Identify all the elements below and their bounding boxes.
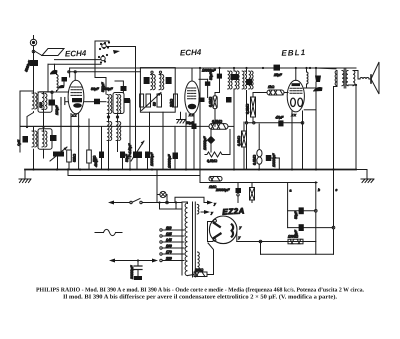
- svg-text:130: 130: [39, 102, 43, 108]
- svg-text:y: y: [213, 202, 216, 206]
- svg-text:x x: x x: [291, 113, 297, 117]
- svg-text:x x: x x: [71, 114, 77, 118]
- svg-text:EZ2A: EZ2A: [222, 206, 245, 216]
- svg-text:170: 170: [166, 250, 172, 254]
- svg-text:50pF: 50pF: [209, 71, 213, 80]
- svg-text:y: y: [238, 236, 241, 240]
- svg-text:52kΩ: 52kΩ: [73, 154, 77, 162]
- svg-text:1kΩ: 1kΩ: [268, 85, 275, 89]
- svg-text:25μF: 25μF: [273, 73, 283, 77]
- svg-text:490pF: 490pF: [94, 156, 98, 167]
- svg-text:7÷140pF: 7÷140pF: [128, 143, 132, 157]
- svg-text:160: 160: [166, 244, 172, 248]
- svg-text:0,5MΩ: 0,5MΩ: [207, 159, 218, 163]
- svg-text:b: b: [318, 188, 320, 192]
- svg-text:20000pF: 20000pF: [130, 265, 134, 280]
- svg-text:8μF: 8μF: [294, 229, 298, 236]
- svg-text:1µF: 1µF: [17, 139, 21, 146]
- svg-text:x x: x x: [188, 113, 194, 117]
- svg-text:220: 220: [165, 257, 172, 261]
- svg-text:16000pF: 16000pF: [202, 69, 216, 73]
- svg-text:500pF: 500pF: [101, 81, 105, 92]
- svg-text:0,5MΩ: 0,5MΩ: [237, 135, 241, 146]
- svg-text:ECH4: ECH4: [180, 48, 202, 58]
- svg-text:80pF: 80pF: [91, 87, 100, 91]
- svg-text:c: c: [336, 188, 338, 192]
- svg-text:145: 145: [166, 238, 172, 242]
- svg-text:110: 110: [166, 226, 172, 230]
- svg-text:10000pF: 10000pF: [150, 152, 154, 166]
- svg-text:y: y: [239, 226, 242, 230]
- svg-text:0,5MΩ: 0,5MΩ: [212, 120, 223, 124]
- svg-text:PHILIPS RADIO - Mod. BI 390 A: PHILIPS RADIO - Mod. BI 390 A e mod. BI …: [36, 287, 364, 294]
- svg-text:Il mod. BI 390 A bis differisc: Il mod. BI 390 A bis differisce per aver…: [63, 294, 338, 301]
- svg-text:100pF: 100pF: [55, 104, 59, 115]
- svg-text:10000pF: 10000pF: [203, 136, 207, 150]
- svg-text:20000pF: 20000pF: [215, 188, 230, 192]
- svg-text:50μF: 50μF: [294, 210, 298, 219]
- svg-text:EBL1: EBL1: [281, 48, 306, 58]
- svg-text:0,5MΩ: 0,5MΩ: [253, 154, 257, 165]
- svg-text:21kΩ: 21kΩ: [170, 99, 174, 108]
- svg-text:50: 50: [153, 102, 157, 106]
- svg-text:ECH4: ECH4: [65, 49, 87, 59]
- svg-text:0,2MΩ: 0,2MΩ: [246, 103, 250, 114]
- svg-text:10000pF: 10000pF: [272, 153, 276, 167]
- svg-text:a: a: [290, 189, 292, 193]
- svg-text:y: y: [210, 211, 213, 215]
- svg-text:125: 125: [166, 232, 172, 236]
- svg-text:47μF: 47μF: [276, 116, 285, 120]
- svg-text:10000pF: 10000pF: [168, 154, 172, 168]
- svg-text:0,1MΩ: 0,1MΩ: [209, 96, 213, 107]
